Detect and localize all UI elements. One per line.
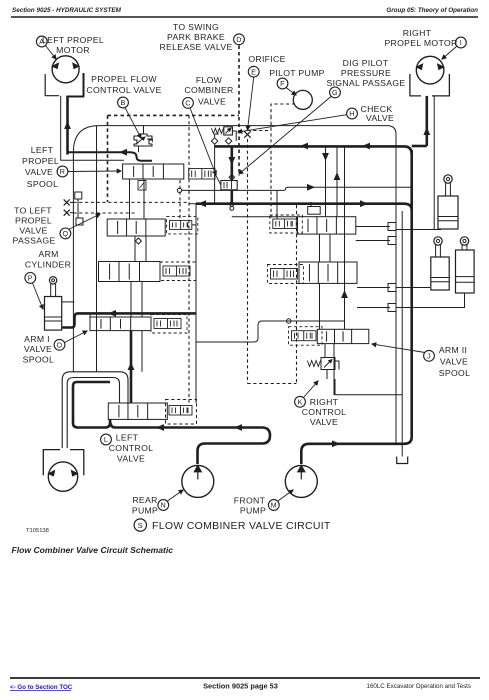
- wire left motor supply pipe thick: [66, 96, 69, 155]
- pilot pump dashed output: [271, 104, 295, 116]
- left valve row2 pilot caps: [160, 262, 196, 281]
- svg-text:ARM I: ARM I: [24, 334, 50, 344]
- flow arrow left on arm line: [108, 310, 116, 317]
- wire thick arm line: [62, 313, 196, 327]
- dashed box top edge: [108, 114, 240, 116]
- flow arrow left on main supply: [362, 143, 370, 150]
- svg-text:VALVE: VALVE: [24, 344, 52, 354]
- wire B component drop: [138, 146, 140, 152]
- wire right motor supply pipe thick: [425, 96, 428, 146]
- wire row3 drop right: [141, 331, 143, 372]
- svg-text:SPOOL: SPOOL: [27, 179, 58, 189]
- wire right row2 drops: [319, 283, 321, 329]
- svg-text:CONTROL VALVE: CONTROL VALVE: [86, 85, 161, 95]
- balloon I: [456, 37, 467, 48]
- svg-text:TO SWING: TO SWING: [173, 22, 219, 32]
- flow arrow left on main supply 2: [300, 143, 308, 150]
- port X to left propel passage upper: [64, 199, 70, 205]
- balloon L: [101, 434, 112, 445]
- svg-text:B: B: [120, 98, 125, 107]
- flow arrow right on front pump line: [332, 440, 340, 447]
- svg-text:Section 9025 page 53: Section 9025 page 53: [203, 682, 278, 691]
- arm II cylinder left: [434, 237, 442, 245]
- pointer G: [239, 97, 331, 175]
- pointer P: [33, 283, 44, 309]
- svg-text:VALVE: VALVE: [117, 454, 145, 464]
- left valve row1 body: [107, 219, 165, 236]
- pointer E: [248, 77, 254, 130]
- svg-text:N: N: [161, 501, 167, 510]
- wire check valve top links: [215, 134, 219, 138]
- dashed box left edge: [107, 115, 109, 202]
- wire arm row link to thick: [89, 313, 91, 317]
- svg-text:CONTROL: CONTROL: [302, 407, 347, 417]
- pointer O: [65, 331, 88, 343]
- right row1 top component: [308, 207, 321, 215]
- pilot pump F: [293, 90, 312, 109]
- svg-text:D: D: [236, 35, 242, 44]
- wire link drop to right row1: [276, 190, 278, 219]
- orifice E: [244, 131, 250, 137]
- flow arrow up on row3 drop: [128, 362, 135, 370]
- svg-text:VALVE: VALVE: [19, 226, 47, 236]
- wire cylinder3 feed: [396, 293, 465, 308]
- left propel motor A: [52, 56, 79, 83]
- wire cylinder1 feed: [396, 229, 441, 231]
- wire signal riser x337: [336, 146, 338, 216]
- right valve row1 pilot caps: [270, 215, 303, 233]
- right valve row1 body: [298, 217, 356, 234]
- svg-text:G: G: [332, 88, 338, 97]
- wire thick return hairpin: [73, 382, 270, 464]
- left valve row1 pilot caps: [167, 216, 198, 234]
- svg-text:R: R: [60, 167, 66, 176]
- svg-text:PUMP: PUMP: [132, 506, 158, 516]
- svg-text:<- Go to Section TOC: <- Go to Section TOC: [10, 684, 73, 691]
- svg-text:P: P: [28, 274, 33, 283]
- wire component to bottom: [326, 370, 328, 380]
- svg-text:Q: Q: [62, 229, 68, 238]
- svg-text:PARK BRAKE: PARK BRAKE: [167, 32, 225, 42]
- pointer Q: [69, 214, 101, 230]
- wire arm II drops: [324, 344, 326, 357]
- dashed pilot drop x271: [270, 116, 272, 219]
- wire thick combiner drop: [231, 146, 234, 180]
- pointer K: [304, 381, 319, 398]
- wire link row0 to right stack: [182, 187, 412, 190]
- wire bottom row risers: [119, 395, 121, 403]
- svg-text:I: I: [460, 38, 462, 47]
- wire B component top stub: [143, 126, 145, 134]
- svg-text:F: F: [280, 79, 285, 88]
- svg-text:Flow Combiner Valve Circuit Sc: Flow Combiner Valve Circuit Schematic: [12, 545, 174, 555]
- wire Q passage stub upper: [70, 201, 74, 203]
- header rule: [11, 16, 478, 18]
- svg-text:MOTOR: MOTOR: [56, 45, 90, 55]
- svg-text:VALVE: VALVE: [366, 113, 394, 123]
- wire return line tail: [189, 203, 196, 205]
- flow arrow left on return 2: [234, 424, 242, 431]
- port circle below combiner: [230, 206, 234, 210]
- wire thick right supply vertical: [410, 150, 413, 438]
- svg-text:TO LEFT: TO LEFT: [14, 206, 52, 216]
- wire cylinder2 feed: [396, 287, 430, 289]
- wire thick supply to left propel: [68, 152, 153, 161]
- balloon R: [57, 166, 68, 177]
- svg-text:VALVE: VALVE: [25, 167, 53, 177]
- wire drop to right stack row1: [325, 146, 327, 217]
- svg-text:LEFT: LEFT: [116, 433, 139, 443]
- combiner outlet diamond: [229, 201, 235, 207]
- wire stepped link left: [196, 321, 345, 342]
- svg-text:CONTROL: CONTROL: [109, 443, 154, 453]
- svg-text:FLOW COMBINER VALVE CIRCUIT: FLOW COMBINER VALVE CIRCUIT: [152, 520, 331, 532]
- balloon G: [330, 87, 341, 98]
- dashed orifice link horizontal: [248, 130, 272, 132]
- balloon N: [158, 500, 169, 511]
- svg-text:PILOT PUMP: PILOT PUMP: [269, 68, 324, 78]
- svg-text:C: C: [185, 99, 191, 108]
- balloon C: [183, 98, 194, 109]
- svg-text:M: M: [271, 501, 277, 510]
- svg-text:DIG PILOT: DIG PILOT: [343, 58, 389, 68]
- svg-text:VALVE: VALVE: [310, 417, 338, 427]
- svg-text:SIGNAL PASSAGE: SIGNAL PASSAGE: [326, 78, 405, 88]
- wire left long vertical: [72, 155, 74, 372]
- wire tank line vertical: [401, 211, 403, 457]
- footer rule top: [10, 677, 480, 679]
- balloon O: [54, 339, 65, 350]
- flow arrow left on center return: [198, 200, 206, 207]
- left propel motor bracket: [45, 74, 59, 96]
- check valve H: [224, 127, 233, 135]
- dashed passage lower: [73, 212, 135, 214]
- wire row0 drops: [129, 179, 131, 219]
- port square r1: [388, 223, 396, 231]
- wire front pump supply: [301, 437, 411, 464]
- check valve inlet diamond left: [211, 138, 217, 144]
- svg-text:160LC Excavator Operation and: 160LC Excavator Operation and Tests: [367, 683, 471, 690]
- svg-text:PROPEL FLOW: PROPEL FLOW: [91, 74, 157, 84]
- wire swing loop outer: [62, 372, 128, 448]
- pointer C: [190, 108, 216, 175]
- port circle on stepped link: [287, 319, 291, 323]
- svg-text:A: A: [39, 37, 44, 46]
- check valve inlet diamond right: [225, 138, 231, 144]
- swing motor bracket: [43, 450, 84, 476]
- svg-text:Section 9025 - HYDRAULIC SYSTE: Section 9025 - HYDRAULIC SYSTEM: [12, 7, 122, 14]
- svg-text:COMBINER: COMBINER: [184, 85, 233, 95]
- dashed box around bottom pilot caps: [166, 400, 197, 425]
- wire row0 to combiner: [215, 174, 221, 185]
- svg-text:FRONT: FRONT: [234, 496, 266, 506]
- svg-text:ARM: ARM: [38, 249, 58, 259]
- right valve row2 pilot caps: [268, 265, 304, 284]
- svg-text:O: O: [57, 340, 63, 349]
- wire port square stub: [77, 199, 79, 218]
- pressure reduce component below arm II: [321, 358, 335, 370]
- arm I pilot caps: [151, 315, 187, 334]
- svg-text:H: H: [349, 109, 355, 118]
- left propel spool pilot caps: [189, 169, 215, 180]
- wire row2 drops: [130, 282, 132, 318]
- tank symbol right: [397, 457, 408, 464]
- svg-text:SPOOL: SPOOL: [439, 368, 470, 378]
- wire right port line 3: [357, 287, 390, 289]
- svg-text:T105138: T105138: [26, 528, 49, 534]
- flow arrow up right gallery: [341, 290, 348, 298]
- port square lower: [76, 218, 83, 225]
- check valve spring: [211, 128, 223, 133]
- wire thick center return: [196, 204, 412, 210]
- wire junction right motor stub: [412, 145, 427, 148]
- wire right stack bottom frame: [335, 379, 402, 395]
- flow arrow up on signal riser: [334, 172, 341, 180]
- wire right row1 drops: [319, 234, 321, 262]
- wire row1 hatch link: [192, 224, 196, 226]
- svg-text:LEFT: LEFT: [31, 145, 54, 155]
- arm II pilot caps: [289, 327, 323, 346]
- dashed passage at Q: [73, 201, 189, 203]
- wire thick main supply horizontal: [215, 146, 412, 154]
- svg-text:VALVE: VALVE: [440, 357, 468, 367]
- row1 drain diamond: [135, 238, 141, 244]
- balloon M: [268, 500, 279, 511]
- check valve outlet step: [232, 131, 236, 139]
- svg-text:PROPEL: PROPEL: [22, 156, 59, 166]
- front pump M: [285, 465, 317, 497]
- swing motor: [48, 462, 77, 491]
- wire Q passage stub lower: [70, 212, 74, 214]
- balloon D: [234, 34, 245, 45]
- wire long vertical to loop: [96, 126, 98, 372]
- balloon S: [134, 519, 146, 531]
- dashed cross link bottom: [248, 383, 297, 385]
- balloon B: [118, 97, 129, 108]
- svg-text:E: E: [251, 67, 256, 76]
- svg-text:Group 05: Theory of Operation: Group 05: Theory of Operation: [386, 7, 478, 14]
- flow arrow left on return 1: [156, 424, 164, 431]
- wire left motor return pipe: [61, 96, 124, 161]
- arm I valve spool O: [90, 317, 151, 331]
- svg-text:J: J: [427, 351, 431, 360]
- port square r3: [388, 284, 396, 292]
- svg-text:PRESSURE: PRESSURE: [341, 68, 391, 78]
- balloon Q: [60, 228, 71, 239]
- svg-text:CYLINDER: CYLINDER: [25, 260, 71, 270]
- svg-text:SPOOL: SPOOL: [23, 355, 54, 365]
- svg-text:FLOW: FLOW: [196, 75, 223, 85]
- port square r2: [388, 237, 396, 245]
- svg-text:S: S: [138, 521, 143, 530]
- flow arrow up to right motor: [423, 127, 430, 135]
- arm II cylinder right: [460, 237, 468, 245]
- port square r4: [388, 304, 396, 312]
- wire arm cylinder head line: [62, 301, 75, 303]
- port square upper: [75, 192, 82, 199]
- left propel valve spool R: [123, 164, 184, 179]
- svg-text:RIGHT: RIGHT: [310, 397, 339, 407]
- svg-text:VALVE: VALVE: [198, 97, 226, 107]
- svg-text:PUMP: PUMP: [240, 506, 266, 516]
- combiner inlet diamond: [229, 175, 235, 181]
- flow arrow left at left propel feed: [119, 149, 127, 156]
- wire right row1 top stub: [232, 216, 298, 218]
- balloon A: [36, 36, 47, 47]
- svg-text:ARM II: ARM II: [439, 345, 467, 355]
- port circle on link line: [177, 188, 181, 192]
- flow arrow right on link line: [307, 184, 315, 191]
- svg-text:PROPEL: PROPEL: [15, 215, 52, 225]
- wire check valve drop left: [214, 144, 216, 204]
- wire right port line 1: [356, 226, 390, 228]
- arm cylinder rod: [50, 284, 52, 297]
- rear pump N: [182, 465, 214, 497]
- dashed pilot rail vertical: [188, 115, 190, 403]
- balloon K: [295, 396, 306, 407]
- pointer A: [46, 46, 57, 60]
- flow arrow right on center return: [360, 200, 368, 207]
- wire row1 drops: [134, 236, 136, 262]
- arm II valve spool J: [317, 329, 369, 343]
- dashed pilot line from D: [238, 46, 240, 177]
- svg-text:PASSAGE: PASSAGE: [13, 236, 56, 246]
- right propel motor I: [416, 56, 444, 84]
- svg-text:LEFT PROPEL: LEFT PROPEL: [42, 35, 104, 45]
- propel flow control valve B: [134, 134, 152, 146]
- port X to left propel passage lower: [64, 210, 70, 216]
- flow combiner valve C: [221, 181, 237, 190]
- left valve row2 body: [99, 262, 161, 282]
- balloon J: [424, 350, 435, 361]
- flow arrow up to left motor: [64, 121, 71, 129]
- pointer B: [125, 108, 141, 139]
- arm cylinder rod eye: [49, 277, 56, 284]
- left control valve bottom row body: [108, 403, 167, 419]
- svg-text:K: K: [297, 397, 302, 406]
- dashed orifice line vertical: [247, 139, 249, 384]
- right propel motor bracket: [410, 74, 450, 96]
- flow arrow down into combiner: [228, 157, 235, 165]
- wire swing loop inner: [67, 378, 119, 449]
- pointer M: [278, 490, 293, 501]
- wire top return line: [73, 126, 396, 444]
- balloon H: [347, 108, 358, 119]
- dashed pilot drop x296: [296, 205, 298, 384]
- small drain box below row0: [138, 181, 146, 191]
- dashed stub row0: [179, 180, 181, 219]
- pointer F: [286, 88, 296, 96]
- wire right motor second pipe: [433, 96, 435, 230]
- balloon F: [277, 78, 288, 89]
- right valve row2 body: [299, 262, 357, 283]
- arm cylinder body: [45, 297, 62, 331]
- svg-text:ORIFICE: ORIFICE: [248, 54, 285, 64]
- pointer R: [68, 170, 121, 173]
- wire right port line 4: [357, 307, 390, 309]
- svg-text:REAR: REAR: [132, 495, 157, 505]
- balloon P: [25, 273, 36, 284]
- pointer I: [442, 47, 457, 60]
- pointer H: [238, 115, 347, 132]
- svg-text:L: L: [104, 435, 108, 444]
- wire combiner to return: [231, 190, 234, 204]
- pointer J: [372, 344, 425, 353]
- wire row3 drops: [130, 331, 133, 403]
- boom cylinder: [444, 175, 452, 183]
- wire right port line 2: [356, 240, 390, 242]
- svg-text:RIGHT: RIGHT: [403, 28, 432, 38]
- svg-text:PROPEL MOTOR: PROPEL MOTOR: [384, 38, 457, 48]
- balloon E: [248, 66, 259, 77]
- svg-text:RELEASE VALVE: RELEASE VALVE: [159, 42, 232, 52]
- flow arrow down on right stack drop: [322, 153, 329, 161]
- pointer N: [168, 490, 184, 501]
- left bottom row pilot caps: [169, 406, 192, 416]
